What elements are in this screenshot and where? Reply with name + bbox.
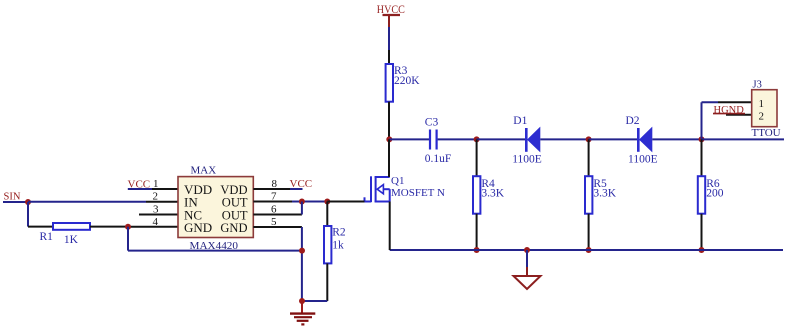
resistor R3 [386, 64, 421, 102]
svg-text:1100E: 1100E [628, 153, 658, 165]
wire R1 node down to ground bus [128, 227, 302, 251]
wire IC pin6 tie to pin7 [253, 202, 302, 215]
svg-text:GND: GND [184, 220, 212, 235]
resistor R2 [324, 226, 346, 263]
svg-text:GND: GND [220, 221, 247, 235]
junction node at R3/rail [386, 136, 392, 142]
svg-text:MOSFET N: MOSFET N [391, 187, 445, 199]
wire node to D1 [477, 138, 526, 140]
wire IC pin7 to gate node [253, 201, 327, 203]
junction gate node [324, 199, 330, 205]
wire SIN input [3, 201, 28, 203]
wire top rail right end [702, 138, 785, 140]
wire J3 pin2 [726, 114, 752, 116]
wire R6 to bottom rail [701, 214, 703, 250]
wire rail to R4 [476, 139, 478, 176]
junction R1/pin4 [125, 224, 131, 230]
svg-text:3: 3 [153, 204, 159, 216]
wire rail to R6 [701, 139, 703, 176]
wire HVCC to R3 [388, 27, 390, 64]
junction node D1/R5 [586, 136, 592, 142]
wire R2 bottom to ground node [302, 263, 327, 301]
wire C3 to node [438, 138, 477, 140]
junction ground/bottom rail [524, 247, 530, 253]
junction ground bus [299, 248, 305, 254]
svg-text:C3: C3 [425, 116, 439, 128]
wire J3 pin1 [702, 102, 752, 139]
junction R6/bottom rail [699, 247, 705, 253]
ground earth symbol [290, 301, 315, 324]
wire gate node to Q1 gate [327, 201, 364, 203]
wire R3 to rail [388, 102, 390, 140]
wire R2 top pin [326, 202, 328, 227]
svg-text:R2: R2 [332, 227, 346, 239]
wire VCC to IC pin1 [128, 188, 178, 190]
resistor R4 [473, 176, 505, 214]
connector J3 [752, 80, 777, 127]
svg-text:220K: 220K [394, 75, 420, 87]
capacitor C3 [425, 116, 452, 164]
junction node C3/R4 [474, 136, 480, 142]
wire IC pin5 to ground bus [253, 227, 302, 301]
svg-text:1100E: 1100E [512, 153, 542, 165]
svg-text:1K: 1K [64, 234, 79, 246]
svg-text:1: 1 [759, 98, 765, 110]
svg-text:J3: J3 [753, 80, 762, 91]
wire R1 to IC pin4 [90, 226, 178, 228]
wire top rail left [389, 138, 429, 140]
svg-text:SIN: SIN [4, 192, 21, 203]
wire R5 to bottom rail [588, 214, 590, 250]
svg-text:4: 4 [153, 216, 159, 228]
power port HGND [713, 105, 745, 116]
svg-text:0.1uF: 0.1uF [425, 153, 452, 165]
svg-text:2: 2 [153, 191, 159, 203]
svg-text:3.3K: 3.3K [481, 187, 504, 199]
wire bottom rail [390, 249, 783, 251]
svg-text:MAX4420: MAX4420 [190, 241, 239, 252]
junction pin7/pin6 [299, 199, 305, 205]
wire IC pin3 stub [139, 214, 178, 216]
svg-text:1k: 1k [332, 240, 344, 252]
svg-text:200: 200 [706, 187, 724, 199]
junction R4/bottom rail [474, 247, 480, 253]
svg-text:OUT: OUT [222, 195, 248, 209]
diode D1 1100E [512, 115, 542, 165]
op-amp U1 MAX4420 IC body [178, 165, 253, 252]
wire R4 to bottom rail [476, 214, 478, 250]
svg-text:R1: R1 [40, 231, 54, 243]
transistor Q1 MOSFET N [365, 175, 445, 202]
wire rail to R5 [588, 139, 590, 176]
wire D1 to node [540, 138, 588, 140]
svg-text:D2: D2 [626, 115, 640, 127]
junction R5/bottom rail [586, 247, 592, 253]
svg-text:Q1: Q1 [391, 175, 404, 187]
svg-text:MAX: MAX [191, 165, 217, 177]
svg-text:3.3K: 3.3K [593, 187, 616, 199]
power port HVCC [377, 4, 405, 27]
svg-text:1: 1 [153, 178, 159, 190]
ground power GND [514, 250, 541, 289]
svg-text:2: 2 [759, 110, 765, 122]
wire D2 to node [652, 138, 701, 140]
junction ground symbol node [299, 298, 305, 304]
svg-text:TTOU: TTOU [752, 127, 781, 139]
wire node to D2 [589, 138, 638, 140]
junction SIN/R1 [25, 199, 31, 205]
wire SIN down to R1 [28, 202, 53, 227]
diode D2 1100E [626, 115, 658, 165]
resistor R6 [698, 176, 724, 214]
wire SIN to IC pin2 [28, 201, 178, 203]
wire drain to rail [388, 139, 390, 177]
resistor R5 [585, 176, 617, 214]
wire IC pin8 to VCC [253, 188, 302, 190]
svg-text:D1: D1 [513, 115, 527, 127]
resistor R1 [40, 223, 91, 246]
svg-text:VCC: VCC [290, 178, 313, 190]
junction node D2/R6/J3 [699, 136, 705, 142]
wire source to bottom rail [389, 202, 391, 251]
